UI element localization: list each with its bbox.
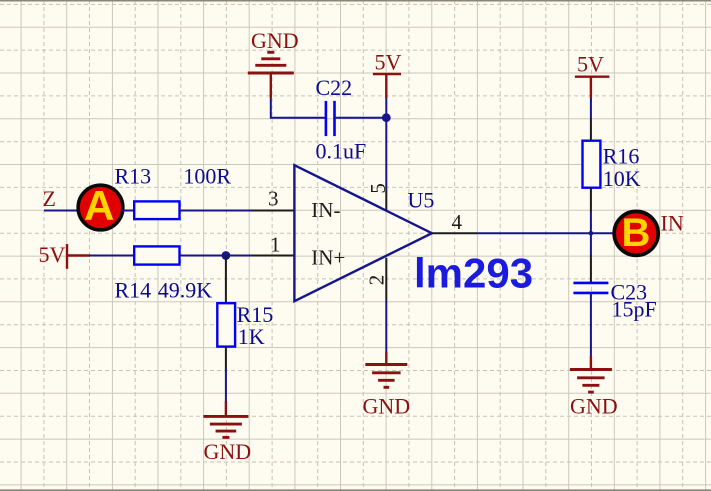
label R16 value 10K xyxy=(603,166,641,191)
svg-text:GND: GND xyxy=(204,439,252,464)
wire: junction down to op-amp pin 5 xyxy=(385,118,387,188)
svg-text:R13: R13 xyxy=(115,164,152,189)
op-amp U5 pin 4 (output) xyxy=(432,232,478,234)
label GND (below op-amp) xyxy=(363,394,411,419)
resistor R14 xyxy=(134,246,179,264)
op-amp U5 pin 3 xyxy=(251,210,294,212)
svg-text:R14: R14 xyxy=(115,278,152,303)
svg-text:5V: 5V xyxy=(39,242,66,267)
label U5 comment lm293 xyxy=(414,249,533,296)
svg-text:R16: R16 xyxy=(603,143,640,168)
pin number 2 xyxy=(364,275,388,286)
label R14 designator xyxy=(115,278,152,303)
label R16 designator xyxy=(603,143,640,168)
wire: C23 to GND xyxy=(590,293,592,370)
svg-text:IN-: IN- xyxy=(311,198,340,222)
wire: C22 to 5V junction xyxy=(335,117,387,119)
wire: net Z to node A xyxy=(44,210,78,212)
wire: node A to R13 xyxy=(122,210,134,212)
resistor R13 xyxy=(134,201,179,219)
power port 5V (left) xyxy=(67,244,90,269)
resistor R16 xyxy=(583,141,601,188)
svg-text:lm293: lm293 xyxy=(414,249,533,296)
label C23 designator xyxy=(611,280,648,305)
svg-text:IN+: IN+ xyxy=(311,245,345,269)
label R13 value 100R xyxy=(183,164,231,189)
svg-text:GND: GND xyxy=(251,28,299,53)
capacitor C22 xyxy=(326,101,335,136)
resistor R15 xyxy=(217,303,235,346)
junction: C22/5V/pin5 node xyxy=(382,113,391,122)
pin name IN+ xyxy=(311,245,345,269)
label C23 value 15pF xyxy=(612,297,657,322)
svg-text:49.9K: 49.9K xyxy=(158,278,213,303)
wire: pin 2 to GND xyxy=(385,300,387,365)
ground (below C23) xyxy=(570,370,612,393)
ground (below op-amp) xyxy=(365,365,407,388)
capacitor C23 xyxy=(573,283,608,293)
svg-text:B: B xyxy=(622,211,651,255)
svg-text:U5: U5 xyxy=(408,187,435,212)
svg-text:15pF: 15pF xyxy=(612,297,657,322)
pin number 4 xyxy=(452,210,463,234)
ground (top, at C22) xyxy=(248,52,294,73)
wire: 5V to R14 xyxy=(89,255,134,257)
wire: pin 4 to node B xyxy=(477,232,614,234)
svg-text:0.1uF: 0.1uF xyxy=(316,139,367,164)
junction: output/R16/C23 node xyxy=(589,231,594,236)
power port 5V (right) xyxy=(575,77,610,98)
op-amp U5 pin 2 (GND) xyxy=(385,258,387,300)
label 5V (right) xyxy=(577,52,604,77)
pin number 5 xyxy=(366,183,390,194)
pin number 3 xyxy=(268,186,279,210)
op-amp U5 body xyxy=(294,165,432,301)
svg-text:3: 3 xyxy=(268,186,279,210)
svg-text:1: 1 xyxy=(270,232,281,256)
ground (below R15) xyxy=(203,416,248,437)
label R13 designator xyxy=(115,164,152,189)
node B (red marker) xyxy=(614,211,658,256)
svg-text:Z: Z xyxy=(43,186,56,211)
svg-text:10K: 10K xyxy=(603,166,641,191)
label C22 value 0.1uF xyxy=(316,139,367,164)
svg-text:GND: GND xyxy=(363,394,411,419)
label R15 value 1K xyxy=(238,324,265,349)
wire: R13 to op-amp pin 3 xyxy=(180,210,252,212)
label 5V (top) xyxy=(375,49,402,74)
svg-text:IN: IN xyxy=(661,211,684,236)
label 5V (left) xyxy=(39,242,66,267)
label GND (top) xyxy=(251,28,299,53)
svg-text:GND: GND xyxy=(570,393,618,418)
pin number 1 xyxy=(270,232,281,256)
node A (red marker) xyxy=(78,182,123,230)
label GND (below C23) xyxy=(570,393,618,418)
wire: R14 to op-amp pin 1 xyxy=(180,255,252,257)
wire: R15 to GND xyxy=(225,347,227,417)
wire: junction down to R15 xyxy=(225,256,227,304)
svg-text:1K: 1K xyxy=(238,324,265,349)
node Z label xyxy=(43,186,56,211)
net label IN xyxy=(661,211,684,236)
label R14 value 49.9K xyxy=(158,278,213,303)
svg-text:2: 2 xyxy=(364,275,388,286)
label GND (below R15) xyxy=(204,439,252,464)
svg-text:A: A xyxy=(84,182,114,229)
label C22 designator xyxy=(316,75,353,100)
svg-text:5V: 5V xyxy=(577,52,604,77)
wire: 5V right down to R16 xyxy=(590,98,592,141)
label R15 designator xyxy=(237,302,274,327)
pin name IN- xyxy=(311,198,340,222)
svg-text:5V: 5V xyxy=(375,49,402,74)
svg-text:4: 4 xyxy=(452,210,463,234)
junction: R14/R15 node xyxy=(222,251,231,260)
power port 5V (top) xyxy=(373,74,401,98)
wire: R16 down to output node xyxy=(590,188,592,234)
wire: top GND down and to C22 xyxy=(271,73,326,118)
label U5 designator xyxy=(408,187,435,212)
svg-text:100R: 100R xyxy=(183,164,231,189)
svg-text:5: 5 xyxy=(366,183,390,194)
wire: 5V top down to junction xyxy=(385,98,387,118)
svg-text:C22: C22 xyxy=(316,75,353,100)
op-amp U5 pin 1 xyxy=(251,255,294,257)
op-amp U5 pin 5 (V+) xyxy=(385,188,387,210)
wire: output node down to C23 xyxy=(590,233,592,282)
